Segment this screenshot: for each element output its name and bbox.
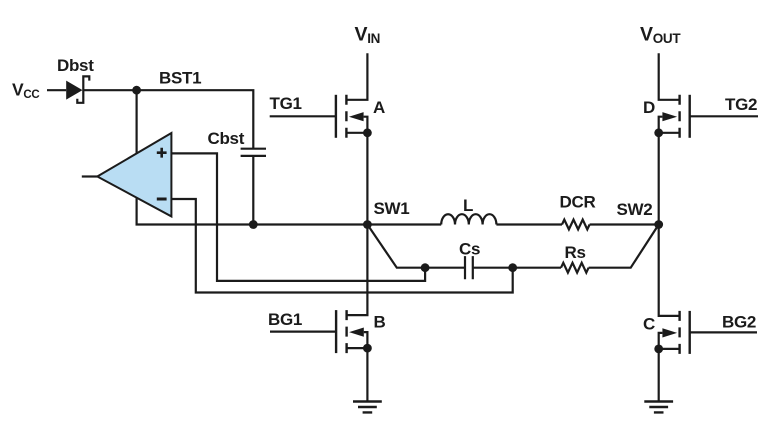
node SW1 — [363, 220, 372, 229]
wire SW1 diagonal to sense row — [367, 225, 425, 268]
svg-text:Cs: Cs — [459, 239, 480, 258]
svg-text:DCR: DCR — [560, 193, 596, 212]
op-amp U1 — [82, 175, 98, 177]
svg-text:BG2: BG2 — [722, 313, 756, 332]
resistor Rs — [561, 263, 589, 273]
capacitor Cs — [465, 256, 473, 279]
transistor Q A — [270, 115, 336, 117]
svg-text:Dbst: Dbst — [57, 56, 94, 75]
wire SW1 vertical lower — [347, 225, 368, 316]
node junction Cbst/rail — [249, 220, 258, 229]
node A source — [363, 128, 372, 137]
wire op-amp + input to Cs left — [171, 153, 425, 281]
svg-text:L: L — [463, 196, 473, 215]
resistor DCR — [562, 220, 590, 230]
wire to ground — [658, 349, 660, 402]
wire to ground — [366, 348, 368, 401]
svg-text:SW2: SW2 — [617, 200, 653, 219]
wire — [590, 223, 659, 225]
ground — [353, 402, 382, 413]
transistor Q B — [270, 331, 336, 333]
node BST1 — [132, 86, 141, 95]
transistor Q C — [690, 331, 757, 333]
wire — [496, 223, 562, 225]
node D source — [654, 128, 663, 137]
wire SW2 vertical upper — [658, 133, 660, 225]
wire — [473, 267, 513, 269]
node Cs left — [421, 263, 430, 272]
wire op-amp - input to Cs right — [171, 199, 512, 293]
wire — [47, 89, 66, 91]
svg-text:B: B — [374, 313, 386, 332]
wire V_OUT stub + transistor D drain — [659, 53, 680, 100]
wire V_IN stub + transistor A drain — [346, 53, 367, 100]
svg-text:VIN: VIN — [355, 24, 381, 47]
ground — [644, 402, 673, 413]
svg-text:TG1: TG1 — [270, 94, 302, 113]
svg-text:VCC: VCC — [12, 80, 39, 102]
wire sense row to SW2 — [589, 225, 659, 268]
node B source — [363, 344, 372, 353]
diode Dbst — [66, 81, 82, 100]
inductor L — [441, 214, 496, 224]
wire — [425, 267, 465, 269]
svg-text:BG1: BG1 — [268, 310, 302, 329]
capacitor Cbst — [241, 149, 266, 156]
svg-text:Rs: Rs — [565, 243, 586, 262]
svg-text:D: D — [643, 98, 655, 117]
svg-text:TG2: TG2 — [725, 95, 757, 114]
svg-text:VOUT: VOUT — [640, 24, 681, 47]
wire — [367, 223, 441, 225]
svg-text:A: A — [373, 98, 385, 117]
node C source — [654, 345, 663, 354]
svg-text:BST1: BST1 — [159, 69, 201, 88]
svg-text:C: C — [643, 315, 655, 334]
wire SW2 vertical lower — [659, 225, 680, 316]
wire — [513, 267, 561, 269]
transistor Q D — [690, 115, 758, 117]
node SW2 — [654, 220, 663, 229]
wire — [137, 90, 368, 224]
node Cs right — [508, 263, 517, 272]
svg-text:Cbst: Cbst — [208, 129, 245, 148]
wire SW1 vertical upper — [366, 133, 368, 225]
svg-text:SW1: SW1 — [374, 199, 410, 218]
wire — [83, 90, 253, 149]
